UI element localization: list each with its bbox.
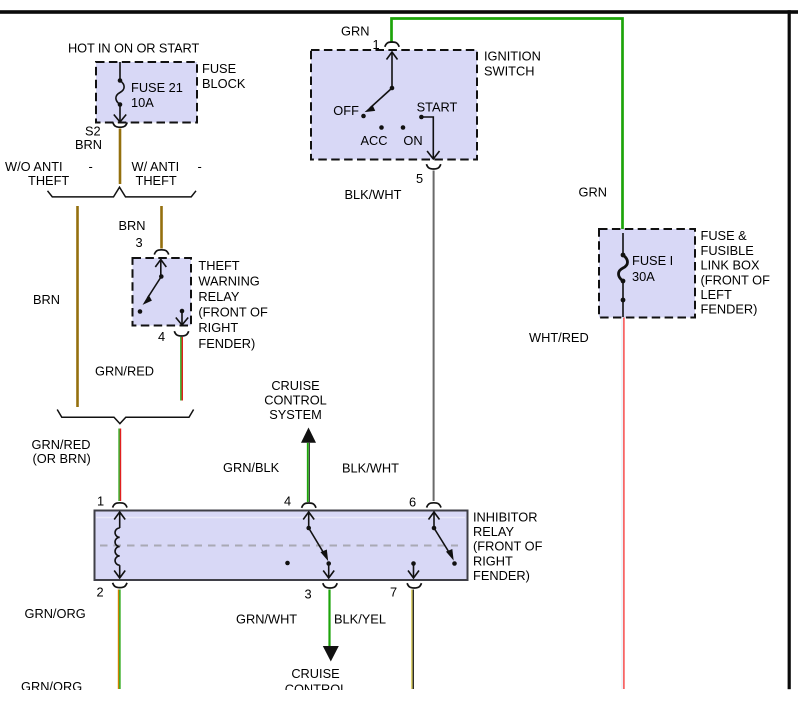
wire BRN fuse block to brace (119, 129, 122, 185)
svg-text:RIGHT: RIGHT (473, 553, 513, 568)
label FUSE 21 10A (131, 80, 183, 110)
ignition internal switch (361, 52, 439, 159)
svg-text:FUSE: FUSE (202, 61, 236, 76)
svg-text:WHT/RED: WHT/RED (529, 330, 589, 345)
right border rule (788, 10, 791, 689)
svg-text:THEFT: THEFT (198, 258, 239, 273)
svg-text:RELAY: RELAY (198, 289, 239, 304)
svg-text:SWITCH: SWITCH (484, 63, 534, 78)
label pin 6 relay (409, 494, 416, 509)
svg-text:W/ ANTI: W/ ANTI (132, 159, 180, 174)
label W/ ANTI - THEFT (132, 159, 202, 188)
inhibitor relay box (95, 511, 468, 581)
svg-text:FUSE I: FUSE I (632, 253, 673, 268)
svg-text:(FRONT OF: (FRONT OF (198, 305, 268, 320)
svg-text:5: 5 (416, 171, 423, 186)
wire GRN/ORG relay pin 2 down (119, 590, 120, 690)
label GRN/ORG (lower clipped) (21, 679, 82, 694)
svg-text:THEFT: THEFT (136, 173, 177, 188)
wire BLK/YEL relay pin 7 down (412, 590, 413, 690)
connector relay pin 1 (113, 503, 127, 508)
label HOT IN ON OR START (68, 41, 199, 56)
label GRN/ORG (upper) (25, 606, 86, 621)
label BLK/YEL (334, 612, 386, 627)
svg-text:LINK BOX: LINK BOX (701, 258, 760, 273)
svg-text:LEFT: LEFT (701, 287, 732, 302)
svg-text:W/O ANTI: W/O ANTI (5, 159, 63, 174)
label ACC (361, 133, 388, 148)
label BRN (below S2) (75, 137, 102, 152)
svg-text:4: 4 (284, 494, 291, 509)
wire BRN right branch to theft relay (160, 206, 163, 249)
label pin 4 theft relay (158, 329, 165, 344)
label INHIBITOR RELAY (FRONT OF RIGHT FENDER) (473, 509, 543, 583)
label CRUISE CONTROL SYSTEM (top) (264, 378, 327, 422)
svg-text:FENDER): FENDER) (473, 568, 530, 583)
svg-text:FUSE &: FUSE & (701, 228, 748, 243)
svg-text:BRN: BRN (119, 218, 146, 233)
label pin 7 relay (390, 585, 397, 600)
svg-text:SYSTEM: SYSTEM (269, 407, 322, 422)
relay switch pin4-pin3 (303, 512, 334, 578)
fuse FUSE 21 10A symbol (114, 62, 126, 122)
label BRN (left branch) (33, 292, 60, 307)
faint inner highlight line relay (96, 517, 465, 519)
connector relay pin 2 (113, 583, 127, 588)
svg-text:INHIBITOR: INHIBITOR (473, 509, 537, 524)
svg-text:BRN: BRN (33, 292, 60, 307)
label pin 1 relay (97, 493, 104, 508)
svg-text:10A: 10A (131, 95, 154, 110)
label ON (403, 133, 422, 148)
label GRN (right) (579, 185, 607, 200)
dashed actuation line inside relay (100, 545, 458, 547)
label pin 2 relay (97, 585, 104, 600)
label GRN (top) (341, 24, 369, 39)
svg-text:GRN/ORG: GRN/ORG (25, 606, 86, 621)
connector theft relay pin 3 (154, 250, 168, 255)
label OFF (333, 103, 359, 118)
connector ignition pin 1 (385, 42, 399, 47)
connector relay pin 7 (407, 583, 421, 588)
arrow to cruise control (bottom) (323, 646, 339, 662)
connector theft relay pin 4 (174, 331, 188, 336)
label IGNITION SWITCH (484, 48, 541, 78)
svg-text:3: 3 (305, 586, 312, 601)
svg-text:-: - (198, 159, 202, 174)
svg-text:GRN: GRN (341, 24, 369, 39)
top border rule (0, 10, 798, 14)
svg-text:FUSIBLE: FUSIBLE (701, 243, 754, 258)
brace split W/O vs W/ anti-theft (48, 187, 197, 197)
wire BLK/WHT ignition pin 5 to relay pin 6 (433, 171, 435, 502)
svg-text:30A: 30A (632, 269, 655, 284)
relay switch pin6 (429, 512, 457, 566)
label FUSE I 30A (632, 253, 673, 284)
wire GRN from ignition pin 1 to fusible link box (392, 19, 623, 233)
svg-text:4: 4 (158, 329, 165, 344)
wire BRN left branch (76, 206, 79, 407)
svg-text:WARNING: WARNING (198, 273, 259, 288)
label pin 3 relay (305, 586, 312, 601)
svg-text:OFF: OFF (333, 103, 359, 118)
svg-text:1: 1 (373, 37, 380, 52)
label S2 (85, 124, 101, 139)
connector relay pin 3 (323, 583, 337, 588)
connector S2 below fuse block (113, 122, 127, 127)
svg-text:6: 6 (409, 494, 416, 509)
svg-text:(OR BRN): (OR BRN) (33, 451, 91, 466)
svg-text:2: 2 (97, 585, 104, 600)
lone contact dot inside relay (285, 561, 290, 566)
brace merge to inhibitor relay (57, 410, 193, 424)
svg-text:1: 1 (97, 493, 104, 508)
svg-text:BLOCK: BLOCK (202, 76, 246, 91)
svg-text:GRN: GRN (579, 185, 607, 200)
svg-text:CONTROL: CONTROL (264, 393, 327, 408)
relay coil pin1-pin2 (114, 512, 125, 578)
svg-text:ON: ON (403, 133, 422, 148)
label pin 5 ignition (416, 171, 423, 186)
label GRN/RED (right branch) (95, 364, 154, 379)
svg-text:3: 3 (136, 235, 143, 250)
label FUSE BLOCK (202, 61, 246, 91)
label FUSE & FUSIBLE LINK BOX (FRONT OF LEFT FENDER) (701, 228, 771, 317)
label GRN/WHT (236, 612, 297, 627)
svg-text:BLK/WHT: BLK/WHT (345, 187, 402, 202)
relay contact pin7 (408, 561, 419, 578)
svg-text:-: - (89, 159, 93, 174)
label BRN (right branch) (119, 218, 146, 233)
svg-text:RELAY: RELAY (473, 524, 514, 539)
svg-text:GRN/WHT: GRN/WHT (236, 612, 297, 627)
svg-text:ACC: ACC (361, 133, 388, 148)
svg-text:GRN/BLK: GRN/BLK (223, 460, 280, 475)
svg-text:RIGHT: RIGHT (198, 320, 238, 335)
svg-text:(FRONT OF: (FRONT OF (473, 539, 543, 554)
label pin 3 theft relay (136, 235, 143, 250)
svg-text:CRUISE: CRUISE (291, 666, 339, 681)
theft warning relay box (133, 258, 192, 326)
svg-text:GRN/RED: GRN/RED (95, 364, 154, 379)
theft relay internal switch (138, 260, 189, 326)
svg-text:BLK/YEL: BLK/YEL (334, 612, 386, 627)
label W/O ANTI - THEFT (5, 159, 93, 188)
svg-text:BRN: BRN (75, 137, 102, 152)
svg-text:HOT IN ON OR START: HOT IN ON OR START (68, 41, 199, 56)
wire WHT/RED below fusible link box (622, 318, 624, 690)
svg-text:IGNITION: IGNITION (484, 48, 541, 63)
bottom white clip strip (0, 690, 798, 711)
fusible link FUSE I 30A symbol (619, 233, 628, 317)
wire GRN/WHT relay pin 3 to arrow (328, 590, 330, 647)
label WHT/RED (529, 330, 589, 345)
svg-text:CRUISE: CRUISE (271, 378, 319, 393)
ignition switch box (311, 50, 477, 160)
label BLK/WHT (lower) (342, 461, 399, 476)
svg-text:(FRONT OF: (FRONT OF (701, 272, 771, 287)
svg-text:GRN/RED: GRN/RED (32, 437, 91, 452)
label BLK/WHT (upper) (345, 187, 402, 202)
arrow to cruise control system (301, 428, 316, 443)
wire GRN/RED theft relay pin 4 to brace (181, 337, 182, 401)
connector relay pin 4 (302, 503, 316, 508)
label START (417, 100, 458, 115)
label pin 4 relay (284, 494, 291, 509)
label pin 1 ignition (373, 37, 380, 52)
svg-text:START: START (417, 100, 458, 115)
fuse and fusible link box (599, 229, 695, 318)
svg-text:7: 7 (390, 585, 397, 600)
label GRN/RED (OR BRN) (32, 437, 91, 466)
label GRN/BLK (223, 460, 280, 475)
svg-text:BLK/WHT: BLK/WHT (342, 461, 399, 476)
connector relay pin 6 (427, 503, 441, 508)
connector ignition pin 5 (426, 164, 440, 169)
wire GRN/BLK arrow to relay pin 4 (308, 443, 310, 502)
fuse block box (96, 62, 197, 123)
svg-text:THEFT: THEFT (28, 173, 69, 188)
svg-text:FENDER): FENDER) (198, 336, 255, 351)
svg-text:FUSE 21: FUSE 21 (131, 80, 183, 95)
svg-text:FENDER): FENDER) (701, 302, 758, 317)
label THEFT WARNING RELAY (FRONT OF RIGHT FENDER) (198, 258, 268, 351)
label CRUISE CONTROL (bottom) (285, 666, 348, 697)
wire GRN/RED brace to relay pin 1 (119, 429, 120, 502)
